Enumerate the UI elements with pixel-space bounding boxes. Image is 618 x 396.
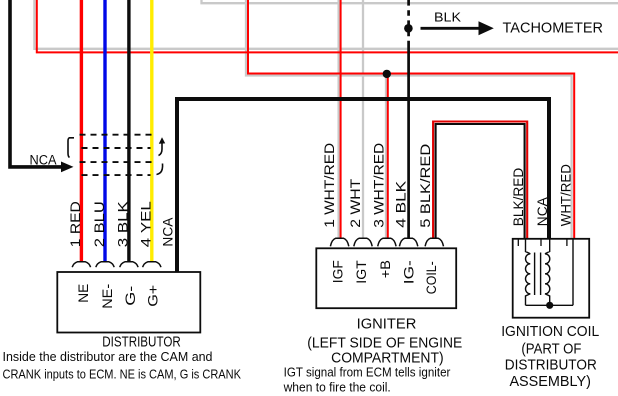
svg-text:IGNITION COIL: IGNITION COIL [501,324,599,340]
svg-text:BLK/RED: BLK/RED [511,168,526,227]
svg-text:NE-: NE- [100,284,115,309]
svg-text:5 BLK/RED: 5 BLK/RED [418,144,433,228]
svg-text:2 WHT: 2 WHT [348,178,363,228]
svg-text:IGNITER: IGNITER [357,316,417,332]
svg-text:DISTRIBUTOR: DISTRIBUTOR [505,357,597,373]
svg-text:1 WHT/RED: 1 WHT/RED [322,143,337,228]
svg-text:Inside the distributor are the: Inside the distributor are the CAM and [3,349,213,364]
svg-text:COIL-: COIL- [424,261,439,294]
svg-text:4 YEL: 4 YEL [139,201,154,247]
svg-text:IGT signal from ECM tells igni: IGT signal from ECM tells igniter [284,364,451,379]
svg-text:4 BLK: 4 BLK [393,180,408,228]
svg-text:TACHOMETER: TACHOMETER [503,20,604,37]
svg-text:+B: +B [378,260,393,278]
svg-text:3 WHT/RED: 3 WHT/RED [372,143,387,228]
svg-text:NCA: NCA [30,152,57,167]
svg-text:IGT: IGT [354,260,369,284]
svg-text:ASSEMBLY): ASSEMBLY) [509,374,591,390]
svg-text:BLK: BLK [434,9,461,24]
svg-text:(PART OF: (PART OF [521,341,581,357]
svg-text:NCA: NCA [535,196,550,226]
svg-text:G-: G- [123,286,138,306]
svg-text:(LEFT SIDE OF ENGINE: (LEFT SIDE OF ENGINE [307,335,462,351]
svg-text:3 BLK: 3 BLK [116,200,131,247]
svg-text:IGF: IGF [331,260,346,283]
svg-text:IG-: IG- [402,260,417,284]
svg-text:NE: NE [76,284,91,303]
svg-text:G+: G+ [146,285,161,307]
svg-text:WHT/RED: WHT/RED [559,164,574,226]
svg-text:when to fire the coil.: when to fire the coil. [283,379,391,394]
svg-text:CRANK inputs to ECM. NE is CAM: CRANK inputs to ECM. NE is CAM, G is CRA… [3,366,242,381]
svg-text:NCA: NCA [161,217,176,247]
svg-text:2 BLU: 2 BLU [92,201,107,247]
svg-text:1 RED: 1 RED [68,201,83,247]
